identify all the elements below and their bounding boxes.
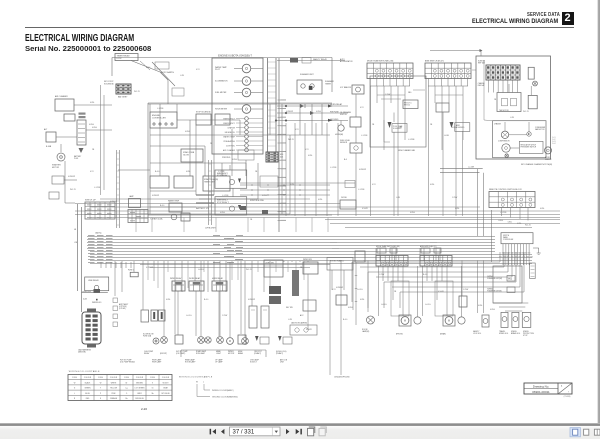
svg-text:CHANGE: CHANGE <box>478 82 485 85</box>
svg-text:Drawing No.: Drawing No. <box>533 385 550 389</box>
svg-text:CRD2(SOFT)280: CRD2(SOFT)280 <box>334 377 350 379</box>
svg-text:WIRING NO: WIRING NO <box>92 302 102 304</box>
svg-text:2B: 2B <box>372 124 375 126</box>
svg-text:0.85R/W: 0.85R/W <box>152 195 159 197</box>
svg-text:GROUND: GROUND <box>330 119 339 121</box>
svg-text:COMPRESSOR: COMPRESSOR <box>498 141 510 143</box>
svg-text:C-04: C-04 <box>552 143 556 145</box>
svg-text:T: T <box>568 392 569 394</box>
svg-text:0.85G: 0.85G <box>262 195 267 197</box>
svg-text:SWING: SWING <box>511 331 517 333</box>
svg-text:SOLECT: SOLECT <box>250 362 257 364</box>
svg-text:BAT GREY: BAT GREY <box>118 96 128 99</box>
svg-text:1.25W: 1.25W <box>385 94 390 96</box>
svg-text:2B: 2B <box>250 219 253 221</box>
svg-text:UNIT: UNIT <box>280 362 284 364</box>
svg-text:L-0.5B: L-0.5B <box>444 135 449 137</box>
svg-text:BODY EARTH: BODY EARTH <box>161 71 174 74</box>
svg-text:COLOUR: COLOUR <box>136 377 144 379</box>
svg-text:C-02: C-02 <box>552 139 556 141</box>
svg-text:CODE: CODE <box>98 377 104 379</box>
svg-text:L-1.25B: L-1.25B <box>361 135 368 137</box>
svg-text:REGULATOR WITCH: REGULATOR WITCH <box>521 144 537 147</box>
svg-text:0.5G/R: 0.5G/R <box>362 208 368 210</box>
svg-text:VIEW CLEANER CAB: VIEW CLEANER CAB <box>398 149 416 152</box>
svg-text:0.85R/W: 0.85R/W <box>110 201 117 203</box>
svg-text:WIRING COLOUR(BASIC): WIRING COLOUR(BASIC) <box>212 389 234 392</box>
svg-text:0.85G: 0.85G <box>498 220 503 222</box>
svg-text:DY02: DY02 <box>117 58 123 60</box>
svg-text:L-1.25B: L-1.25B <box>94 187 101 189</box>
svg-text:0.85L: 0.85L <box>90 102 95 104</box>
svg-text:OP LAMP: OP LAMP <box>215 361 223 364</box>
svg-text:MODE TEAM SWITCH(EC-3B): MODE TEAM SWITCH(EC-3B) <box>367 60 394 63</box>
svg-text:L-2B: L-2B <box>180 75 185 77</box>
svg-text:ENGINE KUBOTA V2403(B)-T: ENGINE KUBOTA V2403(B)-T <box>218 55 252 58</box>
svg-text:BATTERY: BATTERY <box>74 155 82 158</box>
svg-text:2B: 2B <box>255 171 258 173</box>
svg-text:START SW: START SW <box>82 291 91 294</box>
svg-text:2B: 2B <box>394 291 397 293</box>
svg-text:37 / 331: 37 / 331 <box>233 430 255 436</box>
svg-text:ACCELERATOR: ACCELERATOR <box>340 60 353 63</box>
svg-text:Br: Br <box>126 381 128 384</box>
svg-text:W: W <box>100 382 102 384</box>
svg-text:B-4.0: B-4.0 <box>343 319 347 321</box>
svg-text:0.85R/W: 0.85R/W <box>68 176 75 178</box>
svg-text:L-1.25B: L-1.25B <box>358 189 365 191</box>
svg-text:ARM SWITCH (EC4Y): ARM SWITCH (EC4Y) <box>425 60 444 63</box>
svg-text:(OP 8W): (OP 8W) <box>119 308 126 310</box>
svg-text:PLUS: PLUS <box>74 158 78 160</box>
svg-text:WIPER RELAY: WIPER RELAY <box>170 277 182 280</box>
svg-text:06901-00011: 06901-00011 <box>532 390 550 394</box>
svg-text:MODE TEAM SWITCH(EC-3B): MODE TEAM SWITCH(EC-3B) <box>376 245 400 248</box>
svg-text:STOP SOLENOID: STOP SOLENOID <box>196 112 211 114</box>
svg-text:MOTOR: MOTOR <box>52 167 60 169</box>
svg-text:4-0B: 4-0B <box>83 299 88 301</box>
svg-text:CODE: CODE <box>72 377 78 379</box>
svg-text:Lg: Lg <box>126 388 128 390</box>
svg-text:0.85R/W: 0.85R/W <box>248 299 255 301</box>
svg-text:M: M <box>404 319 406 323</box>
svg-text:Sb: Sb <box>151 393 153 395</box>
svg-text:SWING: SWING <box>523 331 529 333</box>
svg-text:0.85R/W: 0.85R/W <box>336 287 343 289</box>
svg-text:GREEN: GREEN <box>84 388 91 390</box>
svg-text:W: W <box>74 382 76 384</box>
svg-text:0.85G: 0.85G <box>316 111 321 113</box>
svg-text:GLOW: GLOW <box>183 154 189 156</box>
svg-text:WATER TEMP: WATER TEMP <box>168 200 180 203</box>
svg-text:ROOM: ROOM <box>545 157 550 159</box>
svg-text:LINE RELAY: LINE RELAY <box>88 279 100 282</box>
svg-text:PRESSURE SWITCH: PRESSURE SWITCH <box>521 147 537 149</box>
svg-text:ACC: ACC <box>300 314 304 317</box>
svg-text:A: A <box>561 385 563 388</box>
svg-text:M: M <box>229 339 231 343</box>
svg-text:W I R I N G C O L O U R E: W I R I N G C O L O U R E X A M P L E <box>179 375 213 378</box>
svg-text:COLOUR: COLOUR <box>84 377 92 379</box>
svg-text:L-2B: L-2B <box>288 319 293 321</box>
svg-text:PINK: PINK <box>112 393 117 395</box>
svg-text:COLOUR: COLOUR <box>162 377 170 379</box>
svg-text:EMERGENCY: EMERGENCY <box>223 123 235 125</box>
svg-text:L-1.25B: L-1.25B <box>330 167 337 169</box>
svg-text:0.85L: 0.85L <box>508 222 513 224</box>
svg-text:W-1.25: W-1.25 <box>246 269 252 271</box>
svg-text:(SMOKE): (SMOKE) <box>78 352 86 354</box>
svg-text:L-2B: L-2B <box>510 117 515 119</box>
svg-text:GRAY: GRAY <box>163 387 169 390</box>
svg-text:ORANGE: ORANGE <box>110 397 118 400</box>
svg-text:B-4.0: B-4.0 <box>204 299 208 301</box>
svg-text:L-0.5G: L-0.5G <box>186 315 192 317</box>
svg-text:CONDENSER: CONDENSER <box>535 127 546 129</box>
svg-text:0.85L: 0.85L <box>166 299 171 301</box>
svg-text:REG 12: REG 12 <box>404 105 410 107</box>
svg-text:RED: RED <box>86 398 90 400</box>
svg-text:GROUND COLOUR(MARKING): GROUND COLOUR(MARKING) <box>212 396 238 399</box>
svg-text:ENGINE OIL: ENGINE OIL <box>225 132 235 134</box>
svg-text:SOLENOID: SOLENOID <box>104 83 114 85</box>
svg-text:SWITCH: SWITCH <box>503 235 509 237</box>
svg-text:1.25W: 1.25W <box>452 197 457 199</box>
svg-text:COLOUR: COLOUR <box>110 377 118 379</box>
svg-text:0.5G/R: 0.5G/R <box>306 329 312 331</box>
svg-text:MOTOR: MOTOR <box>228 353 235 355</box>
svg-text:0.85L: 0.85L <box>455 208 460 210</box>
svg-text:0.85G: 0.85G <box>348 307 353 309</box>
svg-text:L-1.25R: L-1.25R <box>468 167 475 169</box>
svg-text:Gr: Gr <box>152 387 154 390</box>
svg-text:12PTA GREY: 12PTA GREY <box>205 227 217 230</box>
svg-text:STOP RELAY: STOP RELAY <box>217 174 228 177</box>
svg-text:TRAVEL: TRAVEL <box>499 330 505 333</box>
svg-text:FUSE 45A: FUSE 45A <box>143 335 152 338</box>
svg-text:0.85G: 0.85G <box>92 127 97 129</box>
svg-text:SOLENOID: SOLENOID <box>456 127 465 129</box>
svg-text:CAB No: CAB No <box>95 232 102 235</box>
svg-text:WATER TEMP: WATER TEMP <box>223 135 236 138</box>
svg-text:HIGH LAMP: HIGH LAMP <box>152 361 162 364</box>
svg-text:B-4.0: B-4.0 <box>160 205 164 207</box>
svg-text:LIGHT SW: LIGHT SW <box>265 263 274 265</box>
svg-text:0.5Y: 0.5Y <box>295 129 299 131</box>
svg-text:0.85R/W: 0.85R/W <box>286 111 293 113</box>
svg-text:C-01: C-01 <box>552 137 556 139</box>
svg-text:CHARGE: CHARGE <box>227 126 235 129</box>
svg-text:0.85L: 0.85L <box>318 199 323 201</box>
svg-text:ILLUMINATION: ILLUMINATION <box>215 80 228 83</box>
svg-text:0.5Y: 0.5Y <box>90 171 94 173</box>
svg-text:(SV/AFT): (SV/AFT) <box>276 352 283 355</box>
svg-text:LGT GREEN: LGT GREEN <box>135 388 146 390</box>
svg-text:L-0.5G: L-0.5G <box>425 304 431 306</box>
svg-text:PREHEATING: PREHEATING <box>223 140 235 143</box>
svg-text:MR(L): MR(L) <box>508 279 513 281</box>
svg-text:TIMER: TIMER <box>325 83 332 85</box>
svg-text:CODE: CODE <box>124 377 130 379</box>
svg-text:0.5Y: 0.5Y <box>372 184 376 186</box>
svg-text:WHITE: WHITE <box>111 382 117 384</box>
svg-text:CONTROLLER: CONTROLLER <box>503 239 514 241</box>
svg-text:2B: 2B <box>494 99 497 101</box>
svg-text:PW FUSE: PW FUSE <box>330 112 339 114</box>
svg-text:(75VZA): (75VZA) <box>564 395 571 398</box>
svg-text:FLASHER UNIT: FLASHER UNIT <box>300 73 315 76</box>
svg-text:LAMP: LAMP <box>129 195 134 198</box>
svg-text:(REAR): (REAR) <box>440 333 446 336</box>
svg-text:SKY BLUE: SKY BLUE <box>161 393 170 395</box>
svg-text:PILOT: PILOT <box>215 69 221 71</box>
svg-text:THE MOTOR: THE MOTOR <box>499 110 509 112</box>
svg-text:SWITCH 12P: SWITCH 12P <box>85 200 97 202</box>
svg-text:HORN RELAY: HORN RELAY <box>212 277 224 280</box>
svg-text:CAB ROOM LAMP(M): CAB ROOM LAMP(M) <box>291 322 307 325</box>
svg-text:LAMP(M): LAMP(M) <box>362 330 370 333</box>
svg-text:0.85L: 0.85L <box>478 305 483 307</box>
svg-text:CONTROLLER: CONTROLLER <box>152 117 166 119</box>
svg-text:FLASHER UNIT(S): FLASHER UNIT(S) <box>487 290 502 293</box>
svg-text:LOW FUEL: LOW FUEL <box>226 145 235 147</box>
svg-text:R: R <box>74 398 76 400</box>
svg-text:4B: 4B <box>74 229 77 231</box>
svg-text:W-1.25: W-1.25 <box>134 91 140 93</box>
svg-text:FLASHER UNIT(M): FLASHER UNIT(M) <box>487 277 502 280</box>
svg-text:L-1.25B: L-1.25B <box>500 212 507 214</box>
svg-text:WORK RELAY: WORK RELAY <box>189 277 201 280</box>
svg-text:SENSOR: SENSOR <box>340 142 348 144</box>
svg-text:0.5Y: 0.5Y <box>196 69 200 71</box>
svg-text:S: S <box>100 398 102 400</box>
svg-text:BLACK: BLACK <box>85 381 91 384</box>
svg-text:GREY: GREY <box>137 393 143 395</box>
svg-text:0.5Y: 0.5Y <box>332 289 336 291</box>
svg-text:HORN RELAY: HORN RELAY <box>330 103 343 106</box>
svg-text:W-1.25: W-1.25 <box>288 139 294 141</box>
svg-text:ROOM LAMP: ROOM LAMP <box>185 361 196 364</box>
svg-text:G: G <box>74 388 76 390</box>
svg-text:BROWN: BROWN <box>136 382 143 384</box>
svg-text:Db: Db <box>125 398 127 400</box>
svg-text:0.85G: 0.85G <box>220 212 225 214</box>
svg-text:BLUE: BLUE <box>85 393 90 395</box>
svg-text:SWITCH: SWITCH <box>340 114 347 116</box>
svg-text:LIGHT: LIGHT <box>216 353 221 355</box>
svg-text:P: P <box>100 393 102 395</box>
svg-text:W-1.25: W-1.25 <box>70 189 76 191</box>
svg-text:4.5T BEACON: 4.5T BEACON <box>340 86 352 89</box>
svg-text:1.25W: 1.25W <box>463 289 468 291</box>
svg-text:BATTERY 12V: BATTERY 12V <box>196 207 210 210</box>
svg-text:L-0.5G: L-0.5G <box>357 289 363 291</box>
svg-text:CHARGE: CHARGE <box>494 123 501 126</box>
svg-text:L: L <box>74 393 75 395</box>
svg-text:W: W <box>196 382 198 384</box>
svg-text:B-4: B-4 <box>344 159 347 161</box>
svg-text:AIR CLEANER: AIR CLEANER <box>55 95 68 98</box>
svg-text:(OIL PUMP RELAY): (OIL PUMP RELAY) <box>120 361 135 364</box>
svg-text:WIPER SW: WIPER SW <box>303 259 312 261</box>
svg-text:5B0: 5B0 <box>408 92 411 94</box>
svg-text:KEY SW: KEY SW <box>286 307 293 309</box>
svg-text:(FRONT): (FRONT) <box>160 353 167 355</box>
svg-text:YELLOW: YELLOW <box>110 388 117 390</box>
svg-text:0.85L: 0.85L <box>540 208 545 210</box>
svg-text:B 40B: B 40B <box>46 146 52 148</box>
svg-text:ARM SWITCH(EC4Y): ARM SWITCH(EC4Y) <box>420 245 437 248</box>
svg-text:2B: 2B <box>210 143 213 145</box>
svg-text:STOP: STOP <box>523 335 527 337</box>
svg-text:0.5Y: 0.5Y <box>305 149 309 151</box>
svg-text:L-2B: L-2B <box>396 197 401 199</box>
svg-text:0.85L: 0.85L <box>360 299 365 301</box>
svg-text:VIOLET: VIOLET <box>162 382 168 384</box>
svg-text:HOUR METER: HOUR METER <box>215 109 228 111</box>
svg-text:SENSOR: SENSOR <box>545 159 552 161</box>
svg-text:(FRONT): (FRONT) <box>396 334 403 336</box>
svg-text:B-4.0: B-4.0 <box>423 274 427 276</box>
svg-text:FUSE 1: FUSE 1 <box>128 270 134 272</box>
svg-text:0.5Y: 0.5Y <box>360 107 364 109</box>
svg-text:L-0.5G: L-0.5G <box>198 269 204 271</box>
svg-text:0.85G: 0.85G <box>452 127 457 129</box>
svg-text:W-1.25: W-1.25 <box>523 111 529 113</box>
svg-text:2B: 2B <box>92 149 95 151</box>
svg-text:M: M <box>448 319 450 323</box>
svg-text:0.85L: 0.85L <box>308 155 313 157</box>
svg-text:ROOM ( TUBAN ): ROOM ( TUBAN ) <box>330 260 344 263</box>
svg-text:L-1.25B: L-1.25B <box>408 139 415 141</box>
svg-text:AIR CLEANER: AIR CLEANER <box>223 149 236 152</box>
svg-text:RCM LAMP: RCM LAMP <box>196 352 206 355</box>
svg-text:V: V <box>152 382 154 384</box>
svg-text:C-03: C-03 <box>552 141 556 143</box>
svg-text:0.85G: 0.85G <box>410 212 415 214</box>
svg-text:FUEL METER: FUEL METER <box>215 92 227 94</box>
svg-text:O: O <box>126 393 128 395</box>
svg-text:1.25W: 1.25W <box>379 274 384 276</box>
svg-text:L: L <box>203 382 204 384</box>
svg-text:PROTECTION: PROTECTION <box>523 333 535 335</box>
svg-text:0.85G: 0.85G <box>490 309 495 311</box>
svg-text:0.85G: 0.85G <box>89 124 94 126</box>
svg-text:SAFETY: SAFETY <box>473 330 480 333</box>
svg-text:L-1.25B: L-1.25B <box>157 108 164 110</box>
svg-text:CODE: CODE <box>150 377 156 379</box>
svg-text:0.85R/W: 0.85R/W <box>359 169 366 171</box>
svg-text:DRK BLUE: DRK BLUE <box>135 398 144 400</box>
svg-text:KEY CHANGE CHADER NOTCH(M): KEY CHANGE CHADER NOTCH(M) <box>521 163 552 166</box>
svg-text:2B: 2B <box>430 124 433 126</box>
svg-text:2-20: 2-20 <box>141 407 147 411</box>
svg-text:0.85L: 0.85L <box>430 184 435 186</box>
svg-text:B-4.0: B-4.0 <box>146 67 150 69</box>
svg-text:REMOTE CONTROL SWITCH BLOCK: REMOTE CONTROL SWITCH BLOCK <box>489 189 522 191</box>
svg-text:RELAY: RELAY <box>144 352 150 355</box>
svg-text:B-4.0: B-4.0 <box>155 171 159 173</box>
svg-text:MONITOR RE 528A: MONITOR RE 528A <box>250 199 263 202</box>
svg-text:BEAM: BEAM <box>238 352 243 355</box>
svg-text:EMERGENCY: EMERGENCY <box>223 118 235 120</box>
svg-text:0.85G: 0.85G <box>232 159 237 161</box>
svg-text:LOCK SOL: LOCK SOL <box>473 333 481 335</box>
svg-text:1.25W: 1.25W <box>222 315 227 317</box>
svg-text:(SV/AFT): (SV/AFT) <box>254 352 261 355</box>
svg-text:PRINTED: PRINTED <box>222 157 231 159</box>
svg-text:W-1.25: W-1.25 <box>525 225 531 227</box>
svg-text:SPEED SOL: SPEED SOL <box>499 333 508 335</box>
svg-text:DIODE: DIODE <box>341 197 347 199</box>
svg-text:HORN(M): HORN(M) <box>335 134 343 136</box>
svg-text:W I R I N G C O L O U R T: W I R I N G C O L O U R T A B L E <box>69 370 100 373</box>
svg-text:0.85L: 0.85L <box>186 171 191 173</box>
svg-text:421: 421 <box>280 156 283 158</box>
svg-text:0.85G: 0.85G <box>185 131 190 133</box>
svg-text:SAFETY RELAY: SAFETY RELAY <box>313 58 328 61</box>
svg-text:Y: Y <box>100 388 102 390</box>
svg-text:ALT: ALT <box>44 128 48 131</box>
